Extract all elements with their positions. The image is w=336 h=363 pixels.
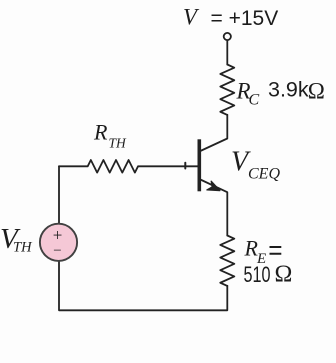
svg-text:−: −	[53, 243, 61, 259]
svg-text:TH: TH	[13, 240, 33, 256]
svg-text:CEQ: CEQ	[248, 166, 280, 183]
svg-text:C: C	[249, 92, 260, 109]
svg-text:3.9k: 3.9k	[268, 78, 309, 102]
svg-text:= +15V: = +15V	[211, 7, 279, 30]
svg-text:Ω: Ω	[275, 262, 293, 288]
svg-text:R: R	[93, 120, 108, 145]
svg-text:510: 510	[244, 262, 271, 287]
svg-text:Ω: Ω	[308, 79, 325, 104]
svg-text:+: +	[53, 226, 63, 245]
svg-text:V: V	[183, 5, 200, 30]
svg-text:TH: TH	[109, 136, 128, 151]
